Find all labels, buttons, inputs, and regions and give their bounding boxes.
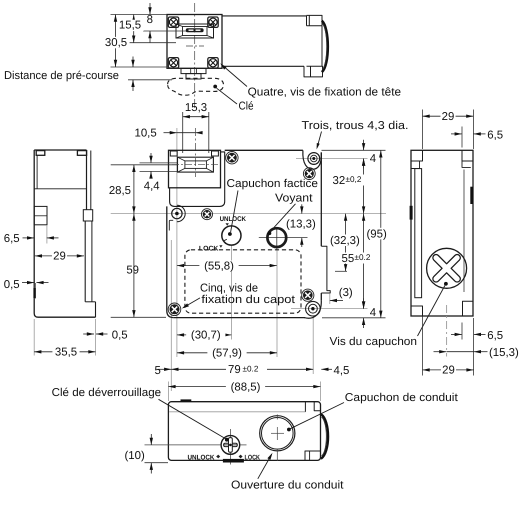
front view: bottom-left corner + left edge	[167, 206, 174, 317]
front view: bottom-right hinge bulge	[304, 301, 321, 319]
svg-text:(3): (3)	[339, 287, 353, 299]
svg-text:LOCK: LOCK	[199, 246, 219, 253]
right view: bottom-left corner notch	[411, 306, 423, 316]
extension line: x=231.4 (lock knob column)	[230, 246, 232, 340]
left view: right edge group	[86, 150, 88, 210]
left view: inner line head section	[36, 155, 38, 189]
svg-text:28,5: 28,5	[109, 185, 131, 197]
dim (55,8) inside cover	[177, 265, 277, 267]
svg-text:6,5: 6,5	[487, 129, 503, 141]
dim 8 (head top to slot center)	[111, 14, 168, 16]
top view: key slot (dark bar)	[186, 28, 204, 32]
dim (88,5) shared with bottom view	[168, 386, 320, 388]
svg-text:±0,2: ±0,2	[346, 175, 362, 184]
right view: dot + leader Vis du capuchon	[444, 282, 448, 286]
dim 29 bottom right view	[422, 317, 424, 376]
front view: top-left cover screw (circled)	[177, 205, 185, 222]
extension line: top hinge centerline y=158.5	[296, 158, 368, 160]
dim 10,5	[176, 128, 178, 152]
top view: head centerline horizontal	[186, 45, 204, 47]
right view: X screw in cap	[433, 255, 460, 282]
dim 15,5	[127, 42, 176, 44]
top view: head screw top-right	[208, 17, 218, 27]
left view: top corner tabs	[36, 151, 45, 156]
front view: voyant (indicator)	[259, 237, 308, 239]
svg-text:8: 8	[147, 14, 153, 26]
bottom view: black seal tick on top edge	[181, 399, 192, 401]
extension line: x=176.9 (cover screw column)	[176, 152, 178, 358]
left view: main outline	[34, 150, 95, 317]
dim (32,3)	[335, 270, 347, 272]
top view: switch body outline	[222, 15, 307, 17]
dim 4 (bottom)	[363, 298, 365, 308]
top view: dot on key + leader to Cle label	[213, 85, 217, 89]
top view: key slot housing	[176, 24, 214, 38]
svg-text:10,5: 10,5	[135, 128, 157, 140]
right view: center dash-dot line below	[446, 305, 448, 357]
right view: inner line right side	[463, 170, 465, 293]
dim 55 +-0.2	[363, 214, 365, 309]
front view: dot + leader Voyant	[268, 231, 272, 235]
svg-text:Capuchon factice: Capuchon factice	[227, 178, 319, 190]
bottom view: conduit opening circles	[260, 416, 295, 451]
dim 29 top right view	[422, 110, 424, 150]
svg-text:Cinq, vis de: Cinq, vis de	[200, 282, 258, 294]
right view: top-right corner notch	[462, 150, 473, 161]
bottom view: conduit cap crescent right	[321, 414, 328, 458]
dim 59	[111, 316, 166, 318]
svg-text:Clé de déverrouillage: Clé de déverrouillage	[52, 387, 162, 399]
svg-text:5: 5	[155, 365, 161, 377]
front view: dashed cover outline	[185, 250, 301, 313]
dim 6,5 left view	[46, 225, 48, 244]
dim (13,3)	[301, 204, 303, 213]
dim 30,5	[111, 66, 168, 68]
svg-text:4,4: 4,4	[144, 181, 160, 193]
front view: lock knob (capuchon factice)	[222, 226, 241, 245]
bottom view: black seal bar under key	[223, 459, 244, 463]
svg-text:Vis du capuchon: Vis du capuchon	[330, 336, 418, 348]
dim (30,7)	[177, 334, 232, 336]
svg-text:4: 4	[370, 307, 376, 319]
svg-text:55: 55	[342, 253, 355, 265]
svg-text:Distance de pré-course: Distance de pré-course	[4, 70, 119, 82]
svg-text:32: 32	[333, 175, 346, 187]
right view: box outline	[411, 150, 473, 316]
svg-text:(88,5): (88,5)	[231, 381, 261, 393]
right view: left rail plate	[415, 169, 422, 298]
dim 5	[158, 368, 172, 370]
front view: padlock tab right edge	[321, 246, 330, 293]
front view: head	[169, 150, 221, 188]
right view: conduit cap circle with X screw	[427, 248, 467, 288]
bottom view: chamfer line	[169, 411, 305, 413]
front view: small cross screw near UNLOCK	[203, 210, 211, 218]
dim 6,5 top right view	[461, 127, 463, 148]
left view: black mark lower left edge	[33, 288, 35, 298]
svg-text:(30,7): (30,7)	[191, 330, 221, 342]
svg-text:(55,8): (55,8)	[204, 260, 234, 272]
left view: side plate	[34, 206, 47, 224]
svg-text:Voyant: Voyant	[275, 193, 313, 205]
top view: head screw bottom-left	[168, 58, 178, 68]
svg-text:0,5: 0,5	[4, 279, 20, 291]
dim 6,5 bottom right view	[461, 323, 463, 340]
right view: black mark left edge	[410, 206, 413, 220]
dim 35,5 left view	[33, 319, 35, 356]
front view: head vertical centerline	[194, 128, 196, 177]
front view: dot + leader Capuchon factice	[228, 232, 232, 236]
front view: bottom-left cover screw	[170, 304, 180, 314]
svg-text:29: 29	[442, 111, 455, 123]
front view: bottom hinge mounting hole	[306, 301, 321, 316]
dim: Distance de pre-course	[128, 79, 172, 81]
front view: screw below top hinge	[305, 169, 314, 178]
front view: cross screw above bottom hinge	[303, 290, 313, 300]
extension line: x=171.3 (79-dim left)	[170, 240, 172, 391]
dim 0,5 left view lower-left	[35, 283, 37, 299]
front view: neck below head	[170, 152, 225, 207]
bottom view: dot + leader Cle de deverrouillage	[159, 399, 226, 438]
top view: conduit end bottom block	[304, 66, 323, 77]
dim (57,9)	[177, 352, 277, 354]
svg-text:fixation du capot: fixation du capot	[201, 294, 296, 306]
dim 0,5 left view bottom-right	[83, 333, 94, 335]
svg-text:±0.2: ±0.2	[355, 253, 371, 262]
dim 4,5	[321, 368, 332, 370]
svg-text:(15,3): (15,3)	[489, 347, 519, 359]
dim 15,3 (above front head)	[182, 112, 184, 153]
svg-text:Trois, trous 4,3 dia.: Trois, trous 4,3 dia.	[302, 120, 409, 132]
right view: black mark right edge	[470, 187, 473, 204]
svg-text:15,3: 15,3	[185, 102, 207, 114]
ext: body top edge y=150.3 to right	[322, 149, 386, 151]
bottom view: unlock key centerlines	[145, 444, 222, 446]
svg-text:(10): (10)	[125, 450, 145, 462]
dim (95)	[380, 150, 382, 317]
top view: conduit end top block	[307, 15, 323, 25]
svg-text:UNLOCK: UNLOCK	[188, 454, 215, 461]
svg-text:(57,9): (57,9)	[212, 348, 242, 360]
top view: head screw bottom-right	[208, 58, 218, 68]
svg-text:35,5: 35,5	[55, 346, 77, 358]
left view: actuator strip right	[84, 221, 86, 302]
front view: top hinge mounting hole	[308, 153, 320, 165]
left view: head/body divider	[34, 188, 86, 190]
svg-text:(95): (95)	[367, 228, 387, 240]
dim 29 left view	[35, 255, 84, 257]
front view: head fixing screw right of head	[227, 153, 237, 163]
dim (10) bottom view	[145, 462, 169, 464]
front view: inner step under neck	[169, 220, 173, 230]
top view: head centerline vertical	[194, 3, 196, 109]
ext: body bottom y=317.8 to right	[322, 317, 386, 319]
dim 28,5	[111, 164, 177, 166]
svg-text:59: 59	[126, 265, 139, 277]
svg-text:4: 4	[370, 153, 376, 165]
svg-text:(32,3): (32,3)	[330, 235, 360, 247]
svg-text:Ouverture du conduit: Ouverture du conduit	[231, 480, 344, 492]
bottom view: box outline	[168, 402, 320, 461]
svg-text:Clé: Clé	[239, 101, 254, 113]
bottom view: dot + leader Capuchon de conduit	[287, 428, 291, 432]
svg-text:79: 79	[228, 364, 241, 376]
top view: conduit cap crescent	[322, 21, 328, 72]
extension line: bottom hinge centerline y=308.6	[291, 308, 368, 310]
top view: conduit cylinder edge	[321, 26, 323, 67]
svg-text:30,5: 30,5	[105, 37, 127, 49]
dim 4 (top)	[363, 140, 365, 151]
leader: Ouverture du conduit	[258, 454, 272, 478]
dim 79 +-0.2	[171, 368, 313, 370]
svg-text:15,5: 15,5	[119, 20, 141, 32]
extension line: x=313.2 (hinge column / 79-dim right)	[312, 318, 314, 374]
svg-text:LOCK: LOCK	[245, 454, 261, 461]
extension line: x=168.4 (88.5 left)	[167, 382, 169, 402]
top view: head outline	[167, 15, 222, 69]
extension line: screw-row centerline y=213.6	[111, 213, 386, 215]
svg-text:29: 29	[442, 365, 455, 377]
svg-text:4,5: 4,5	[334, 365, 350, 377]
front view: head top tabs	[170, 151, 177, 156]
front view: head slot	[178, 157, 214, 172]
bottom view: right end blocks	[304, 402, 306, 412]
svg-text:6,5: 6,5	[487, 330, 503, 342]
dim 4,4	[140, 162, 178, 164]
svg-text:0,5: 0,5	[112, 330, 128, 342]
dim 32 +-0,2	[363, 159, 365, 214]
dim (3)	[329, 294, 331, 304]
dim (15,3) right view	[434, 351, 447, 353]
top view: head screw top-left	[168, 17, 178, 27]
left view: boss on right edge	[83, 210, 92, 221]
svg-text:(13,3): (13,3)	[286, 219, 316, 231]
right view: bottom-right corner notch	[463, 301, 474, 316]
right view: top-left corner notch	[411, 150, 423, 161]
svg-text:29: 29	[53, 251, 66, 263]
svg-text:Quatre, vis de fixation de têt: Quatre, vis de fixation de tête	[248, 87, 402, 99]
leader: Quatre vis de fixation de tete	[222, 65, 248, 87]
extension line: x=277 (voyant/conduit column)	[276, 248, 278, 358]
extension line: x=320.5 (88.5 right)	[320, 382, 322, 402]
front view: body outline	[225, 149, 303, 151]
svg-text:Capuchon de conduit: Capuchon de conduit	[345, 392, 459, 404]
top view: dashed operation key	[168, 78, 224, 95]
svg-text:6,5: 6,5	[4, 233, 20, 245]
top view: key entry tabs below head	[181, 68, 206, 73]
svg-text:±0.2: ±0.2	[243, 364, 259, 373]
bottom view: unlock key	[221, 436, 240, 455]
